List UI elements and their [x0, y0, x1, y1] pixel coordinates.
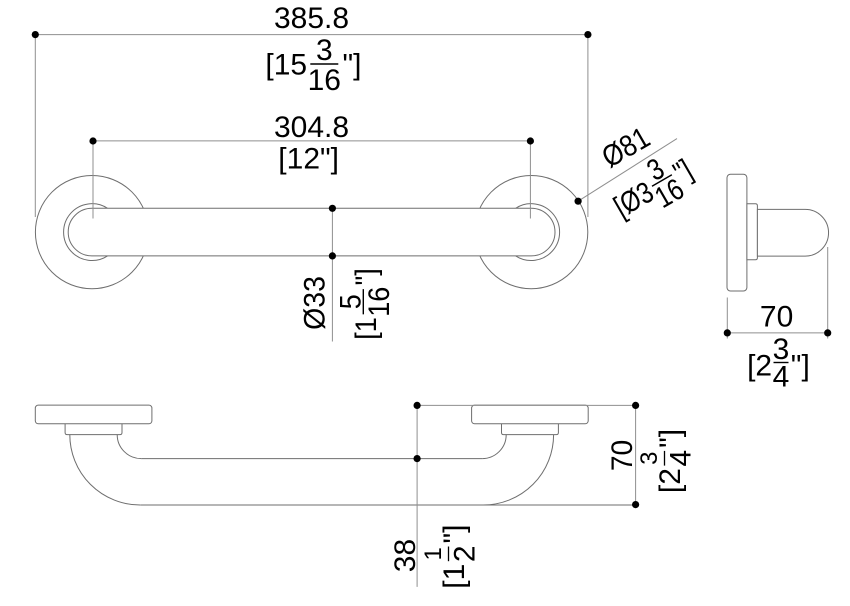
plan label [1 1/2"] (rotated) — [420, 525, 482, 589]
side view bar with round end — [757, 209, 828, 256]
plan dot 70 bottom — [632, 501, 639, 508]
right extension line 385.8 — [587, 35, 589, 217]
side 70 dot left — [724, 329, 731, 336]
grab bar tube (front view) — [68, 208, 555, 256]
side 70 dot right — [824, 329, 831, 336]
dim 304.8 line — [93, 140, 530, 142]
svg-text:70: 70 — [606, 440, 639, 471]
plan bar outer edge left bend — [70, 435, 140, 505]
side view collar — [747, 204, 758, 260]
plan left collar — [65, 424, 122, 435]
svg-text:"]: "] — [350, 268, 384, 285]
dim dot 304.8 right — [527, 137, 534, 144]
plan bar inner edge right bend — [482, 435, 506, 459]
svg-text:4: 4 — [773, 361, 790, 394]
svg-text:[1: [1 — [438, 564, 471, 589]
leader line diameter 81 — [578, 139, 677, 202]
leader dot diameter 81 — [575, 198, 582, 205]
side 70 right extension — [827, 247, 829, 339]
dim dot 304.8 left — [89, 137, 96, 144]
plan label 70 (rotated) — [606, 440, 639, 471]
svg-text:"]: "] — [654, 429, 687, 448]
plan bar top line — [141, 458, 482, 460]
plan top extension line — [417, 404, 635, 406]
side view flange plate — [727, 174, 747, 291]
plan bar inner edge left bend — [117, 435, 141, 459]
dim dot bar top — [329, 205, 336, 212]
svg-text:[1: [1 — [350, 317, 384, 340]
plan left flange plate — [35, 405, 152, 424]
plan right flange plate — [472, 405, 589, 424]
svg-text:304.8: 304.8 — [274, 111, 349, 144]
svg-text:3: 3 — [316, 34, 333, 67]
svg-text:[15: [15 — [265, 49, 307, 82]
svg-text:[2: [2 — [654, 468, 687, 493]
left flange outer circle — [35, 176, 148, 289]
svg-text:"]: "] — [791, 350, 810, 383]
dim dot 385.8 right — [584, 31, 591, 38]
svg-text:4: 4 — [665, 450, 698, 467]
svg-text:"]: "] — [343, 49, 362, 82]
dim dot bar bottom — [329, 252, 336, 259]
plan label [2 3/4"] (rotated) — [636, 429, 698, 493]
side 70 dim line — [727, 332, 827, 334]
svg-text:Ø33: Ø33 — [299, 276, 332, 330]
plan dot bar top at 38 — [414, 455, 421, 462]
left extension line 304.8 — [92, 141, 94, 219]
plan dot 70 top — [632, 402, 639, 409]
svg-text:2: 2 — [449, 545, 482, 562]
plan 70 dim line — [635, 405, 637, 504]
side label [2 3/4"] — [747, 333, 810, 394]
left extension line 385.8 — [34, 35, 36, 217]
svg-text:385.8: 385.8 — [274, 2, 349, 35]
label diameter 33 (rotated) — [299, 276, 332, 330]
plan bar outer edge right bend — [483, 435, 553, 505]
label diameter 81 (rotated) — [596, 121, 655, 174]
svg-text:70: 70 — [760, 301, 793, 334]
plan vertical line at 38 dim — [416, 405, 418, 587]
dim 385.8 line — [35, 34, 588, 36]
label [1 5/16"] (rotated) — [334, 268, 396, 339]
plan right collar — [502, 424, 559, 435]
label [15 3/16"] — [265, 34, 361, 97]
svg-text:16: 16 — [363, 287, 397, 317]
plan bar bottom line — [140, 504, 635, 506]
svg-text:38: 38 — [389, 539, 422, 572]
dim line diameter 33 — [331, 208, 333, 341]
svg-text:"]: "] — [438, 525, 471, 544]
right extension line 304.8 — [529, 141, 531, 219]
side 70 left extension — [726, 298, 728, 339]
right flange outer circle — [475, 176, 588, 289]
left collar circle arc — [64, 204, 108, 261]
svg-text:3: 3 — [636, 452, 663, 465]
label [diameter 3 3/16"] (rotated) — [600, 139, 704, 234]
svg-text:1: 1 — [420, 547, 447, 560]
svg-text:[2: [2 — [747, 350, 772, 383]
svg-text:16: 16 — [308, 64, 341, 97]
svg-text:[12"]: [12"] — [278, 142, 339, 175]
dim dot 385.8 left — [32, 31, 39, 38]
plan label 38 (rotated) — [389, 539, 422, 572]
right collar circle arc — [516, 204, 560, 261]
plan dot wall at 38 — [414, 402, 421, 409]
